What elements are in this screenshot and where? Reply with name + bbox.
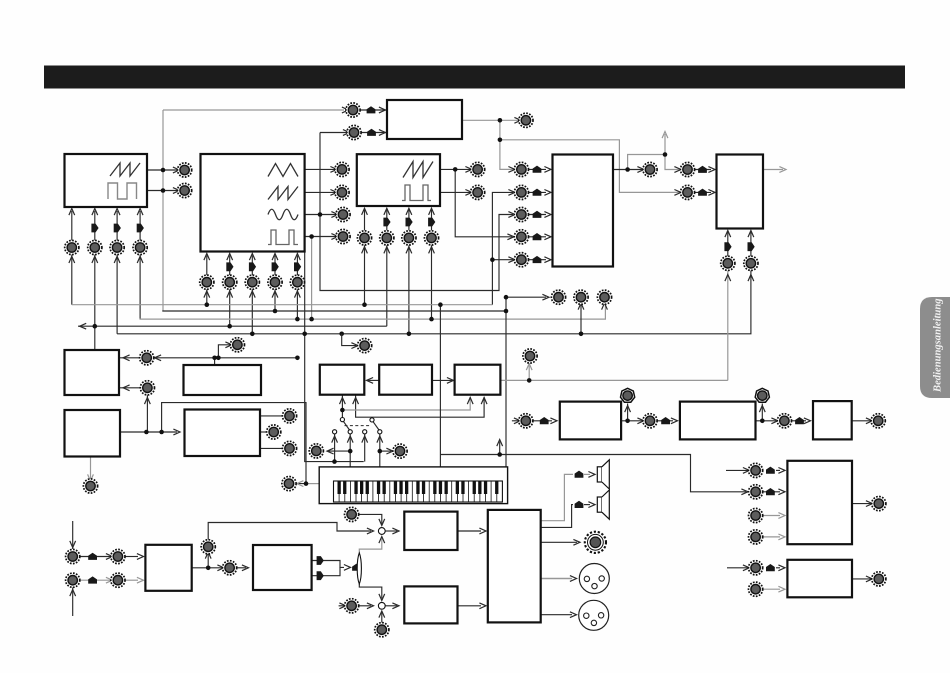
wire mix row y236 knob to box (528, 236, 546, 238)
arrow ain row2 box (137, 577, 144, 583)
wire G row3 (763, 515, 780, 517)
osc1 sawtooth icon (110, 163, 140, 176)
wire boxD to boxE (458, 530, 482, 532)
arrow G row2 box (778, 489, 785, 495)
arrow arpA box (550, 418, 557, 424)
arrow ain to box2 (242, 565, 249, 571)
box H (787, 560, 852, 598)
wire E to speaker1 (541, 474, 573, 520)
wire boxF to boxE (458, 605, 482, 607)
arrow boxE in1 (479, 528, 486, 534)
arrow X1 bottom (379, 537, 385, 544)
arrow osc2 col3 box (249, 254, 255, 261)
wire vcf bypass up (628, 155, 665, 170)
wire switch link (345, 425, 372, 427)
junction kb knob line (304, 481, 309, 486)
wire E to speaker2 (541, 505, 573, 528)
arrow osc2 col1 knob (204, 291, 210, 298)
arrow arp knob1 (637, 418, 644, 424)
arrow vcf row2 knob (674, 190, 681, 196)
wire lfo2 bottom out (90, 457, 92, 480)
arrow osc1 col1 box (69, 209, 75, 216)
mod osc2 c3 (249, 262, 256, 271)
arrow mix knob2 (578, 303, 584, 310)
junction H334 knob346 (339, 332, 344, 337)
audio in box 2 (253, 545, 312, 590)
wire vcf row1 knob to box (694, 169, 711, 171)
arrow mix row3 box (544, 212, 551, 218)
mod vca c2 (748, 242, 755, 251)
wire contact3 down (364, 434, 366, 462)
arrow speaker1 (588, 472, 595, 478)
arrow glide2 in (173, 429, 180, 435)
wire speed knob feed (218, 345, 230, 358)
arrow contact2 (347, 436, 353, 443)
junction arp hex2 (760, 419, 765, 424)
wire lens top to X1 (359, 539, 382, 553)
wire osc1 col4 (139, 211, 141, 241)
junction lfo1 speed (216, 356, 221, 361)
junction boxC out (527, 378, 532, 383)
audio in box 1 (145, 545, 191, 591)
wire G row4 (763, 536, 780, 538)
mod pwm2 (367, 129, 376, 136)
LFO1 box (65, 350, 120, 395)
arrow boxC in1 (467, 398, 473, 405)
osc2 pulse icon (268, 230, 298, 245)
knob osc1 m1 (65, 240, 79, 254)
knob env b (267, 425, 281, 439)
arrow H row1 knob (743, 565, 750, 571)
wire tri2 line (312, 567, 340, 575)
headphone jack (585, 532, 606, 553)
wire osc2 col5 lower (296, 289, 298, 319)
switch contact3 (363, 430, 367, 434)
arp box B (680, 402, 756, 440)
arrow osc3 col1 knob (362, 247, 368, 254)
junction pwm gray (498, 138, 503, 143)
wire vcf up arrow line (664, 134, 666, 155)
wire ain row1 (80, 556, 110, 558)
wire mix row y259 knob to box (528, 259, 546, 261)
arrow boxA left (367, 378, 374, 384)
mod vcf2 (698, 189, 707, 196)
arrow ain in1 (70, 541, 76, 548)
arrow kbknob (297, 481, 304, 487)
wire osc3 col4 (431, 210, 433, 230)
arrow hex2 (759, 406, 765, 413)
knob pwm mod1 (346, 103, 360, 117)
knob osc3 out2 (471, 185, 485, 199)
arrow into pwm out knob (514, 117, 521, 123)
knob ain gain (201, 540, 215, 554)
oscillator 1 box (65, 154, 148, 207)
wire vcf out (763, 169, 783, 171)
wire H326 bus (78, 325, 387, 327)
wire V492 to mix row2 and row5 (492, 192, 513, 304)
wire boxA in1 (341, 395, 343, 418)
box G (787, 461, 852, 544)
wire contact2 down (349, 434, 351, 467)
arrow H out knob (866, 576, 873, 582)
wire osc2 col1 lower (206, 289, 208, 304)
wire osc2 col1 (206, 256, 208, 276)
junction vcf riser (663, 152, 668, 157)
junction H311 v506 (504, 309, 509, 314)
wire osc3 col2 (386, 210, 388, 230)
arrow knob346 (351, 343, 358, 349)
wire PWM knob2 feed (320, 132, 346, 134)
arrow contact1 (332, 436, 338, 443)
wire osc3 col2 lower (386, 245, 388, 326)
side tab Bedienungsanleitung (920, 297, 950, 398)
osc2 sawtooth icon (268, 187, 298, 200)
arrow contact4 (377, 436, 383, 443)
wire arpA out (621, 420, 642, 422)
wire osc1 out2 (147, 190, 177, 192)
wire boxB to boxA (367, 379, 379, 381)
wire H311 bus (162, 310, 506, 312)
arrow ain in2 (70, 590, 76, 597)
junction arp hex1 (625, 419, 630, 424)
mod osc2 c5 (294, 262, 301, 271)
filter box (717, 155, 764, 229)
junction H334 mixknob2 (579, 332, 584, 337)
arrow ain row2 knob2 (106, 577, 113, 583)
knob G r3 (749, 508, 763, 522)
wire G out (852, 503, 871, 505)
wire contact4 to knob (380, 450, 391, 452)
wire speaker1 arrowline (584, 473, 590, 475)
wire arp knob2 to C (792, 420, 807, 422)
wire mix row5 branch (492, 259, 513, 261)
wire G row2 long line (440, 455, 746, 492)
knob mix b1 (551, 290, 565, 304)
wire osc2 col5 (296, 256, 298, 276)
arrow vcf row2 box (708, 190, 715, 196)
knob sw left (309, 444, 323, 458)
xfade node 2 (378, 602, 385, 609)
wire ain out (192, 567, 222, 569)
knob boxC amt (523, 349, 537, 363)
mod osc3 c3 (406, 218, 413, 227)
knob volume pre (643, 162, 657, 176)
knob osc3 m4 (424, 231, 438, 245)
osc2 triangle icon (268, 164, 298, 177)
knob ain 1b (111, 549, 125, 563)
wire ain in1 down (72, 521, 74, 549)
wire H row1 feed (727, 567, 748, 569)
arrow X1 top (379, 519, 385, 526)
wire osc2 col3 (251, 256, 253, 276)
wire knob432 feed (499, 442, 501, 455)
arrow vca knob1 (725, 275, 731, 282)
junction osc2 pulse (309, 234, 314, 239)
wire knob346 feed (342, 334, 356, 346)
PWM box (387, 100, 462, 139)
wire lfo1 row2 arrowline (119, 387, 140, 389)
volume box D (404, 512, 457, 550)
wire osc3 col1 lower (364, 245, 366, 304)
junction lfo1 end (295, 356, 300, 361)
wire ain row1 to box (125, 556, 138, 558)
arrow mix row2 box (544, 190, 551, 196)
knob lfo1 speed (230, 338, 244, 352)
knob G r1 (749, 463, 763, 477)
knob osc3 m1 (357, 231, 371, 245)
junction H311 osc2c4 (273, 309, 278, 314)
wire E to phones (541, 541, 577, 543)
arrow osc1 col4 box (137, 209, 143, 216)
mod H r1 (766, 564, 775, 571)
wire osc2 col4 (274, 256, 276, 276)
knob vca m2 (744, 256, 758, 270)
junction mix out (625, 167, 630, 172)
arrow vcf up (662, 132, 668, 139)
arrow boxE in2 (479, 603, 486, 609)
switch contact4 (378, 430, 382, 434)
wire knob630 to X2 (381, 613, 383, 623)
wire contact2 to knob (328, 450, 350, 452)
wire V320 sine down (320, 133, 513, 291)
arrow knob356 up (526, 364, 532, 371)
mod mix4 (533, 233, 542, 240)
knob H r2 (749, 582, 763, 596)
arrow into pwm knob2 (343, 130, 350, 136)
wire osc3 out1 (440, 168, 470, 170)
arrow mix knob1 (542, 294, 549, 300)
knob osc2 out pulse (336, 229, 350, 243)
arrow into osc2 pulse knob (331, 234, 338, 240)
knob osc3 out1 (471, 162, 485, 176)
knob G out (872, 497, 886, 511)
arrow osc3 col4 box (429, 208, 435, 215)
knob phones vol (345, 599, 359, 613)
knob ain 2a (66, 573, 80, 587)
wire arp knobA to A (533, 420, 552, 422)
crossfade lens (357, 553, 361, 584)
wire contact1 down (334, 434, 336, 462)
knob knob346 (358, 339, 372, 353)
keyboard (319, 467, 507, 504)
knob mix5 (514, 253, 528, 267)
knob osc2 out sine (336, 207, 350, 221)
osc3 pulse icon (402, 185, 431, 201)
arrow osc3 col1 box (362, 208, 368, 215)
arrow into osc3 out2 knob (465, 190, 472, 196)
knob osc2 m4 (268, 275, 282, 289)
wire mix row y169 knob to box (528, 168, 546, 170)
arrow arpB box (671, 418, 678, 424)
mod osc2 c4 (272, 262, 279, 271)
knob lfo2 out (83, 479, 97, 493)
wire osc2 col2 (229, 256, 231, 276)
arrow arpC box (804, 418, 811, 424)
wire osc2 col3 lower (251, 289, 253, 334)
wire osc1 col2 (94, 211, 96, 241)
junction H2 osc2c1 (205, 302, 210, 307)
knob vca m1 (721, 256, 735, 270)
arrow into osc1 out1 knob (173, 167, 180, 173)
arrow knob326 (80, 323, 87, 329)
knob lfo1 a (140, 351, 154, 365)
wire PWM out (462, 119, 518, 121)
oscillator 3 box (357, 154, 440, 206)
wire lfo2 out (120, 431, 177, 433)
arrow contact3 (362, 436, 368, 443)
wire osc2 col2 lower (229, 289, 231, 326)
mod vca c1 (724, 242, 731, 251)
knob mix b2 (574, 290, 588, 304)
knob mix3 (514, 207, 528, 221)
volume box F (404, 586, 457, 623)
knob bal (375, 623, 389, 637)
knob lfo1 b (140, 381, 154, 395)
knob arp C (777, 414, 791, 428)
arrow G row2 knob (741, 489, 748, 495)
arrow mix row5 knob (508, 257, 515, 263)
arrow arpA knob (514, 418, 521, 424)
mod arpB (661, 417, 670, 424)
arrow osc2 col2 box (227, 254, 233, 261)
wire vca knob2 col (750, 232, 752, 257)
mod ain1 (88, 553, 97, 560)
arrow lfo1 row1 (123, 355, 130, 361)
arrow osc2 col1 box (204, 254, 210, 261)
knob osc1 out1 (178, 163, 192, 177)
arrow ain out knob (217, 565, 224, 571)
junction lfo2 b (159, 430, 164, 435)
boxC env (455, 365, 501, 395)
wire kb to knob (306, 483, 319, 485)
wire boxC out gray (500, 379, 727, 381)
knob ain 1a (66, 549, 80, 563)
wire vcf row2 knob to box (694, 191, 711, 193)
wire osc3 saw to mix row4 (455, 169, 512, 236)
junction H2 v440 (438, 302, 443, 307)
junction H2 osc3c1 (362, 302, 367, 307)
arrow osc1 col2 box (92, 209, 98, 216)
arrow osc3 col4 knob (429, 247, 435, 254)
knob osc2 m3 (245, 275, 259, 289)
arrow into osc2 tri knob (330, 167, 337, 173)
junction H320 osc3c4 (429, 317, 434, 322)
wire arp knob1 to B (657, 420, 673, 422)
arrow hex1 (625, 406, 631, 413)
arrow vca col2 box (748, 231, 754, 238)
mod speaker2 (575, 501, 584, 508)
wire PWM knob1 feed (163, 109, 344, 111)
junction H326 osc1c2 (93, 324, 98, 329)
switch contact2 (348, 430, 352, 434)
arrow boxC left (447, 378, 454, 384)
wire G row2 to box (763, 491, 780, 493)
wire osc1 col4 lower (139, 255, 141, 320)
knob ain level (223, 561, 237, 575)
wire ain row2 (80, 579, 110, 581)
wire E to xlr1 (541, 578, 572, 580)
junction lfo1 glide (212, 356, 217, 361)
arrow G out knob (866, 501, 873, 507)
arrow into pwm box r1 (379, 107, 386, 113)
speaker 2 (597, 490, 609, 519)
wire lfo1 row1 (154, 357, 297, 359)
wire osc1 out1 (147, 169, 177, 171)
knob vcf cutoff (680, 162, 694, 176)
wire osc2 out tri (305, 168, 335, 170)
wire knob606 to X2 (359, 605, 371, 607)
arrow ain tap knob (205, 552, 211, 559)
knob mix1 (514, 162, 528, 176)
knob osc2 out tri (335, 162, 349, 176)
wire X2 to boxF (385, 605, 397, 607)
wire osc1 col3 (116, 211, 118, 241)
knob pwm mod2 (347, 125, 361, 139)
speaker 1 (597, 460, 609, 489)
wire glide2 k3 (260, 447, 282, 449)
wire osc3 col1 (364, 210, 366, 230)
arrow into osc3 out1 knob (465, 167, 472, 173)
arrow osc3 col2 knob (384, 247, 390, 254)
wire boxA in2 (356, 395, 485, 418)
mod vcf1 (698, 166, 707, 173)
wire mix knob1 feed (506, 296, 546, 298)
arrow mix row1 knob (508, 167, 515, 173)
wire lens bottom to X2 (359, 584, 382, 599)
arrow X2 top (379, 594, 385, 601)
svg-text:Bedienungsanleitung: Bedienungsanleitung (933, 298, 944, 393)
wire V163 osc1 outputs down (162, 110, 164, 311)
wire glide2 k1 (260, 415, 282, 417)
junction contact2 (348, 449, 353, 454)
wire PWM row1 to box (360, 109, 387, 111)
mod ain2 (88, 576, 97, 583)
switch2 common (370, 418, 374, 422)
mod tri1 (317, 556, 324, 565)
mod osc3 c4 (428, 218, 435, 227)
arrow osc1 col2 knob (92, 256, 98, 263)
arrow lfo1 row2 (123, 385, 130, 391)
mod tri2 (317, 571, 324, 580)
arrow osc2 col5 knob (295, 291, 301, 298)
junction H326 osc2c2 (227, 324, 232, 329)
arrow knob432 up (497, 440, 503, 447)
LFO2 box (65, 410, 121, 457)
arrow vcf row1 knob (674, 167, 681, 173)
knob arp hex2 (755, 388, 769, 402)
knob arp A (519, 414, 533, 428)
arrow into pwm box r2 (379, 130, 386, 136)
wire osc1 col2 lower (94, 255, 96, 351)
knob master vol (345, 507, 359, 521)
mod mix2 (533, 189, 542, 196)
arrow mix row1 box (544, 167, 551, 173)
mod G r2 (766, 488, 775, 495)
arrow osc1 col4 knob (137, 256, 143, 263)
wire switch2 lever (373, 422, 379, 430)
knob osc2 m2 (223, 275, 237, 289)
wire V506 keyboard (505, 297, 507, 467)
wire mix row y214 knob to box (528, 214, 546, 216)
knob osc2 out saw (335, 185, 349, 199)
knob G r4 (749, 530, 763, 544)
arrow mix row2 knob (508, 190, 515, 196)
arrow boxC in2 (481, 398, 487, 405)
arrow X1 out (392, 528, 399, 534)
arrow vca col1 box (725, 231, 731, 238)
arrow osc2 col2 knob (227, 291, 233, 298)
wire osc2 out pulse (305, 236, 336, 238)
